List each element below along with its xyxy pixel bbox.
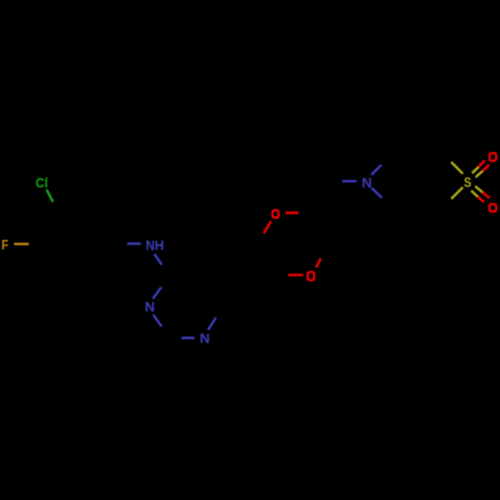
bond N1-C8a (half)	[208, 318, 216, 331]
bond N3-C4 (half)	[153, 287, 161, 299]
svg-text:N: N	[145, 299, 155, 315]
bond O-C6 (half)	[264, 221, 271, 233]
bond CH2-S (half)	[451, 187, 463, 199]
bond F-C4' (half)	[14, 243, 29, 245]
double bond S=O upper inner line	[476, 171, 483, 177]
double bond S=O upper outer line	[472, 167, 478, 173]
bond CH2-N (half)	[342, 180, 356, 182]
bond N-C4az (half)	[372, 188, 383, 198]
svg-text:F: F	[2, 236, 9, 252]
bond NH-C4 (half)	[154, 254, 162, 265]
bond N3-C2 (half)	[153, 315, 161, 327]
double bond S=O lower inner line	[475, 186, 482, 192]
svg-text:N: N	[200, 330, 210, 346]
bond C7-O (half)	[288, 274, 303, 276]
bond O-CH2 (half)	[316, 259, 321, 268]
bond C2-N1 (half)	[181, 337, 195, 339]
bond N-C2az (half)	[372, 165, 382, 175]
svg-text:N: N	[362, 175, 372, 191]
svg-text:Cl: Cl	[36, 174, 48, 190]
bond C1'-NH (half)	[127, 242, 141, 244]
svg-text:NH: NH	[146, 237, 164, 253]
ether O (upper)	[273, 210, 279, 217]
bond O-CH2 (half)	[285, 212, 298, 214]
bond CH3-S (half)	[451, 162, 463, 174]
bond Cl-C3' (half)	[47, 190, 54, 203]
svg-text:S: S	[464, 174, 472, 190]
ether O (lower)	[308, 272, 314, 280]
sulfonyl O (top)	[490, 153, 497, 161]
sulfonyl O (bottom)	[490, 204, 497, 211]
double bond S=O lower outer line	[471, 191, 477, 197]
